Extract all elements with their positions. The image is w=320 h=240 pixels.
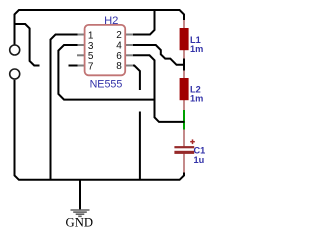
inductor L2 bottom lead (183, 100, 185, 111)
svg-text:1m: 1m (190, 94, 203, 104)
terminal J2 circle (10, 69, 20, 79)
wire pin 8 upper segment (break at crossing) (133, 66, 140, 91)
wire ground drop (79, 180, 81, 210)
wire pin 4 staircase to L1-L2 node (133, 45, 185, 65)
lead between L1 and L2 (183, 50, 185, 79)
ground symbol (71, 210, 90, 216)
capacitor C1 bottom lead (183, 154, 185, 175)
wire bottom ground bus from terminal J2 across to C1 (15, 80, 185, 180)
capacitor C1 top lead (183, 129, 185, 147)
wire pin 2 up to top rail (133, 10, 155, 35)
capacitor C1 bottom plate (174, 151, 194, 154)
wire pin 1 down to bottom bus (51, 35, 78, 180)
svg-text:2: 2 (116, 30, 122, 41)
wire top rail from terminal J1 up and across to L1 (15, 10, 185, 45)
svg-text:GND: GND (66, 215, 94, 229)
inductor L2 body (180, 78, 189, 100)
IC H2 NE555 body (85, 25, 126, 75)
wire branch from top-left junction down to pin 7 row (15, 24, 40, 66)
svg-text:NE555: NE555 (90, 79, 123, 91)
wire pin 7 short segment (69, 65, 78, 67)
svg-text:1: 1 (88, 30, 94, 41)
svg-text:1m: 1m (190, 44, 203, 54)
wire pin 6 down then right to node OUT (133, 55, 185, 122)
IC H2 right pin stubs (pins 2,4,6,8) (125, 35, 133, 66)
IC H2 left pin stubs (pins 1,3,5,7) (77, 35, 85, 66)
terminal J1 circle (10, 45, 20, 55)
junction at L1-L2 node (183, 59, 185, 71)
svg-text:H2: H2 (104, 15, 118, 27)
inductor L1 body (180, 28, 189, 50)
svg-text:1u: 1u (194, 155, 205, 165)
node OUT green wire segment (183, 110, 185, 130)
svg-text:7: 7 (88, 61, 94, 72)
wire pin 8 lower segment down to bottom bus (139, 112, 141, 180)
inductor L1 top lead (183, 19, 185, 29)
capacitor C1 top plate (174, 146, 194, 148)
capacitor C1 polarity plus sign (190, 139, 195, 144)
svg-text:8: 8 (116, 61, 122, 72)
wire pin 3 around to pin 6 riser (58, 45, 155, 100)
